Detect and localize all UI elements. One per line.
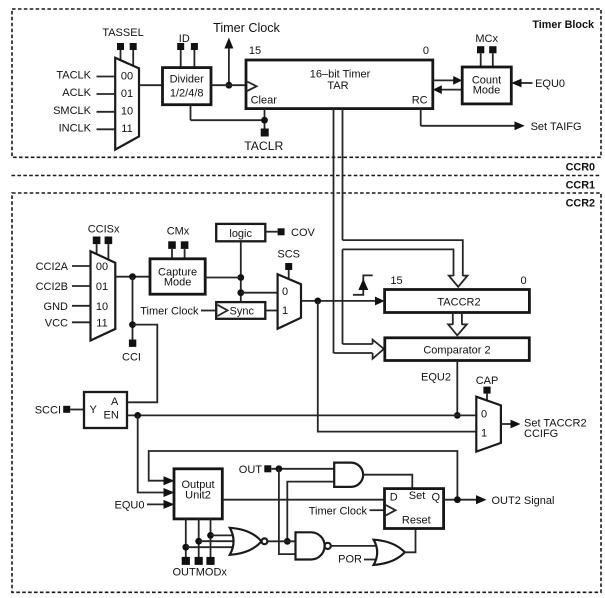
mux SCS <box>278 274 301 329</box>
svg-text:1/2/4/8: 1/2/4/8 <box>170 88 204 100</box>
svg-text:logic: logic <box>229 228 252 240</box>
svg-text:MCx: MCx <box>475 33 498 45</box>
CAP control terminal <box>476 375 499 402</box>
svg-text:SCS: SCS <box>277 249 300 261</box>
ID control terminals <box>177 33 198 68</box>
svg-text:10: 10 <box>121 106 133 118</box>
wire CCI to latch A input <box>127 325 157 403</box>
nor gate OUTMOD decode <box>230 528 268 555</box>
CCR2 dashed border <box>12 193 601 592</box>
svg-text:EN: EN <box>104 410 119 422</box>
svg-text:D: D <box>390 492 398 504</box>
TASSEL control terminals <box>102 27 143 67</box>
node INCLK <box>59 122 116 134</box>
wire TAR to Count Mode <box>433 76 462 85</box>
block Output Unit2 <box>164 469 223 519</box>
label CCR0 <box>566 162 595 174</box>
svg-text:Divider: Divider <box>170 74 205 86</box>
svg-text:15: 15 <box>390 275 402 287</box>
wire divider to TAR <box>211 84 246 86</box>
svg-text:CCR1: CCR1 <box>566 180 595 192</box>
node Timer Clock flop <box>309 505 385 517</box>
node CCI2B <box>36 281 91 293</box>
svg-text:Mode: Mode <box>164 277 192 289</box>
block logic <box>216 224 265 241</box>
svg-text:EQU0: EQU0 <box>115 500 145 512</box>
wire NAND to OR <box>331 545 378 547</box>
svg-text:OUT: OUT <box>239 464 263 476</box>
svg-text:Mode: Mode <box>473 85 501 97</box>
MCx control terminals <box>475 33 498 67</box>
svg-text:OUTMODx: OUTMODx <box>173 567 228 579</box>
svg-text:Sync: Sync <box>230 306 255 318</box>
svg-text:Timer Clock: Timer Clock <box>140 306 199 318</box>
node GND <box>44 301 91 313</box>
CCR0 CCR1 dashed divider <box>12 175 602 177</box>
svg-text:Set TAIFG: Set TAIFG <box>531 121 582 133</box>
wire OR to flop Reset <box>405 529 416 553</box>
svg-text:GND: GND <box>44 301 69 313</box>
svg-text:EQU0: EQU0 <box>535 78 565 90</box>
wire Set TAIFG <box>421 109 582 133</box>
wire EQU2 net to EN and CAP mux <box>127 412 476 419</box>
svg-text:Set: Set <box>409 490 426 502</box>
svg-text:A: A <box>111 396 119 408</box>
wire capture to CAP mux input 1 <box>318 301 477 432</box>
svg-text:Y: Y <box>90 404 98 416</box>
svg-text:CCIFG: CCIFG <box>524 428 558 440</box>
CMx control terminals <box>167 226 190 259</box>
wire logic to sync path <box>205 241 277 302</box>
svg-text:OUT2 Signal: OUT2 Signal <box>492 495 555 507</box>
svg-text:COV: COV <box>291 227 316 239</box>
hollow bus TAR to TACCR2 and Comparator 2 <box>334 109 468 353</box>
svg-text:EQU2: EQU2 <box>421 372 451 384</box>
mux CCISx capture input select <box>91 251 116 340</box>
capture edge select glyph <box>353 275 373 294</box>
svg-text:0: 0 <box>423 45 429 57</box>
wire mux to Capture Mode <box>115 273 150 280</box>
COV terminal <box>265 227 315 239</box>
wire capture signal to TACCR2 trigger <box>301 297 385 306</box>
svg-text:0: 0 <box>282 286 288 298</box>
latch SCCI Y A EN <box>84 392 127 428</box>
svg-text:CCR2: CCR2 <box>566 198 595 210</box>
svg-text:CCI: CCI <box>122 352 141 364</box>
svg-text:15: 15 <box>249 45 261 57</box>
label CCR2 <box>566 198 595 210</box>
svg-text:Timer Clock: Timer Clock <box>309 505 368 517</box>
SCCI terminal <box>35 405 84 417</box>
node VCC <box>45 317 91 329</box>
wire Q to OUT2 Signal <box>444 495 555 507</box>
OUTMODx terminals <box>173 519 228 579</box>
svg-text:ACLK: ACLK <box>62 87 91 99</box>
svg-text:11: 11 <box>121 123 132 135</box>
svg-text:Clear: Clear <box>251 95 278 107</box>
svg-text:TACLR: TACLR <box>244 139 283 153</box>
wire Set TACCR2 CCIFG <box>501 418 587 441</box>
wires OUTMODx to NOR inputs <box>186 535 241 547</box>
svg-text:TACCR2: TACCR2 <box>437 296 480 308</box>
CCISx control terminals <box>88 224 120 261</box>
svg-text:VCC: VCC <box>45 317 68 329</box>
wire AND to flop Set <box>363 475 412 489</box>
flip-flop D Set Q Reset <box>385 489 444 529</box>
svg-text:CCI2B: CCI2B <box>36 281 68 293</box>
wire OUT feedback loop <box>149 451 458 500</box>
TACLR terminal <box>191 105 284 153</box>
svg-text:Unit2: Unit2 <box>185 490 211 502</box>
svg-text:1: 1 <box>481 428 487 440</box>
node TACLK <box>56 70 115 82</box>
svg-text:CAP: CAP <box>476 375 499 387</box>
label CCR1 <box>566 180 595 192</box>
CCI terminal <box>122 277 141 364</box>
SCS control terminal <box>277 249 300 280</box>
svg-text:TACLK: TACLK <box>56 70 91 82</box>
node EQU2 <box>421 361 461 419</box>
wire Output Unit2 to D input <box>222 499 384 501</box>
svg-text:01: 01 <box>121 88 133 100</box>
svg-text:TASSEL: TASSEL <box>102 27 143 39</box>
block Sync <box>216 302 265 319</box>
wire EQU2 to Output Unit2 <box>138 415 164 492</box>
svg-text:01: 01 <box>96 281 108 293</box>
svg-text:INCLK: INCLK <box>59 122 92 134</box>
wire NOR to NAND <box>267 540 295 542</box>
hollow bus arm into Comparator 2 <box>334 340 384 359</box>
svg-text:CCISx: CCISx <box>88 224 120 236</box>
svg-text:CCI2A: CCI2A <box>36 261 69 273</box>
block Capture Mode <box>150 259 205 294</box>
wire NOR output to AND input <box>284 482 334 545</box>
or gate reset <box>374 540 405 565</box>
svg-text:Comparator 2: Comparator 2 <box>423 344 490 356</box>
svg-text:SMCLK: SMCLK <box>53 105 92 117</box>
svg-text:TAR: TAR <box>327 80 348 92</box>
svg-text:0: 0 <box>520 275 526 287</box>
and gate <box>334 463 363 487</box>
mux CAP <box>476 397 501 452</box>
svg-text:Q: Q <box>431 492 440 504</box>
divider block <box>163 68 212 105</box>
node Timer Clock top <box>213 21 280 89</box>
register TAR 16-bit timer <box>246 45 433 109</box>
node ACLK <box>62 87 115 99</box>
wire OUT to NAND input <box>279 469 296 554</box>
svg-text:Timer Block: Timer Block <box>532 19 595 31</box>
svg-text:0: 0 <box>481 409 487 421</box>
svg-text:10: 10 <box>96 301 108 313</box>
wire mux to divider <box>139 84 163 86</box>
label Timer Block <box>532 19 595 31</box>
node EQU0 output unit <box>115 500 164 512</box>
node SMCLK <box>53 105 115 117</box>
hollow bus TACCR2 to Comparator 2 <box>448 313 467 336</box>
Timer Block dashed border <box>12 9 601 157</box>
svg-text:16–bit Timer: 16–bit Timer <box>310 69 371 81</box>
svg-text:RC: RC <box>412 95 428 107</box>
wire Sync to SCS mux <box>265 310 277 312</box>
svg-text:Reset: Reset <box>402 514 431 526</box>
node CCI2A <box>36 261 91 273</box>
block Count Mode <box>462 67 511 104</box>
register TACCR2 <box>385 275 530 313</box>
svg-text:SCCI: SCCI <box>35 405 61 417</box>
comparator Comparator 2 <box>385 338 530 361</box>
svg-text:00: 00 <box>96 261 108 273</box>
svg-text:CCR0: CCR0 <box>566 162 595 174</box>
svg-text:Timer Clock: Timer Clock <box>213 21 280 35</box>
node EQU0 <box>511 78 565 90</box>
OUT terminal <box>239 464 334 476</box>
wire Count Mode to TAR <box>433 85 462 94</box>
svg-text:POR: POR <box>338 554 362 566</box>
node POR <box>338 554 379 566</box>
mux TASSEL clock source select <box>115 58 139 150</box>
svg-text:11: 11 <box>96 317 107 329</box>
svg-text:CMx: CMx <box>167 226 190 238</box>
node Timer Clock sync <box>140 306 216 318</box>
svg-text:1: 1 <box>282 305 288 317</box>
svg-text:00: 00 <box>121 71 133 83</box>
nand gate <box>296 532 331 559</box>
